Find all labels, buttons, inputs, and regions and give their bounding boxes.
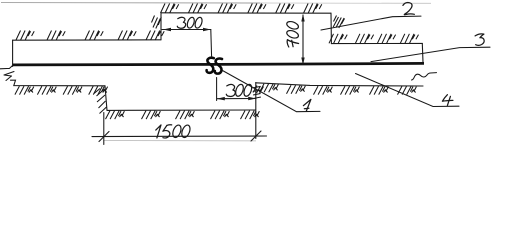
dimension 300 top: arrows	[163, 28, 211, 32]
dimension 1500: value label	[156, 125, 172, 138]
hatching below left backfill line	[15, 86, 108, 95]
pit right wall / extension line	[255, 83, 257, 139]
dense hatch cluster at pit right wall top	[253, 86, 264, 99]
dimension 300 bottom: line	[217, 98, 256, 100]
hatching below pit bottom	[106, 111, 260, 120]
callout 1 label	[303, 99, 311, 111]
dimension 300 top: value label	[177, 17, 185, 28]
dimension 700: line	[302, 15, 304, 65]
hatch marks on right step wall	[333, 16, 344, 29]
pit bottom	[107, 109, 256, 111]
top ground line (upper bench)	[161, 12, 331, 14]
dimension 1500: oblique ticks	[99, 131, 261, 142]
hatch marks on left step wall	[152, 16, 162, 29]
ground surface left (undisturbed soil)	[13, 40, 161, 67]
backfill surface below cable, right	[256, 83, 423, 86]
callout 2 leader	[321, 16, 421, 30]
cable line (thick)	[13, 63, 424, 65]
dimension 300 bottom: value label	[226, 84, 235, 96]
backfill surface below cable, left	[11, 80, 106, 86]
dimension 300 top: line	[162, 29, 211, 31]
scan artifact line top edge	[1, 2, 260, 4]
pit left wall	[105, 86, 107, 111]
callout 3 label	[475, 34, 484, 45]
hatch marks on pit left wall	[94, 89, 107, 114]
dimension 700: value label (rotated)	[286, 20, 300, 47]
callout 4 leader	[356, 74, 460, 107]
hatching above top ground line	[161, 4, 322, 14]
callout 4 label	[442, 95, 453, 106]
cable break squiggle right end	[412, 73, 437, 80]
callout 1 leader	[223, 71, 321, 112]
dimension 1500: left extension line	[103, 113, 105, 145]
dimension 700: arrows	[301, 14, 304, 65]
cable break mark left edge	[0, 65, 14, 80]
hatching above right ground line	[329, 34, 419, 44]
dimension 1500: line	[92, 135, 267, 138]
scan ghost line below 1500 dimension	[104, 140, 256, 142]
cable splice symbol (double curl)	[207, 58, 214, 73]
dimension 300 top: extension line	[210, 30, 213, 58]
ground surface right of step	[331, 42, 422, 44]
step wall left of upper bench	[160, 13, 162, 40]
step wall right of upper bench	[330, 13, 332, 43]
dimension 300 bottom: arrows	[217, 97, 256, 101]
dimension 300 bottom: extension line	[216, 78, 218, 101]
callout 2 label	[403, 3, 415, 15]
right edge vertical (drawing cut)	[421, 43, 424, 62]
hatching below right backfill line	[260, 84, 417, 95]
hatching above left ground line	[16, 31, 164, 41]
callout 3 leader	[371, 47, 490, 61]
